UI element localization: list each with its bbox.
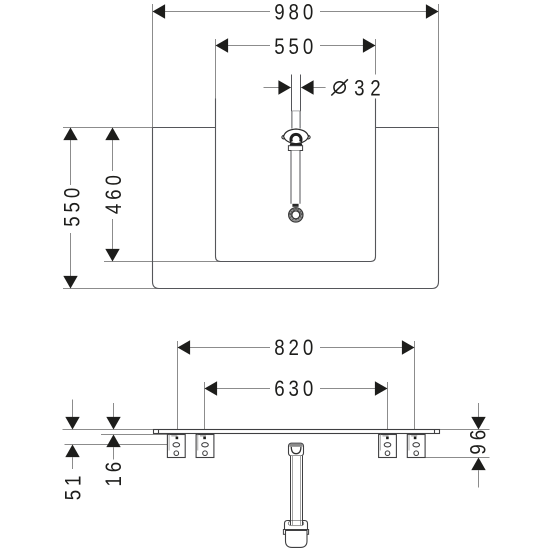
svg-text:51: 51 (62, 472, 86, 501)
svg-text:460: 460 (103, 171, 127, 214)
svg-text:550: 550 (61, 184, 85, 227)
svg-text:820: 820 (274, 337, 317, 361)
svg-text:630: 630 (274, 378, 317, 402)
svg-text:16: 16 (103, 458, 127, 487)
svg-text:96: 96 (467, 426, 491, 455)
svg-text:32: 32 (354, 77, 386, 101)
svg-text:980: 980 (274, 1, 317, 25)
svg-text:550: 550 (274, 35, 317, 59)
